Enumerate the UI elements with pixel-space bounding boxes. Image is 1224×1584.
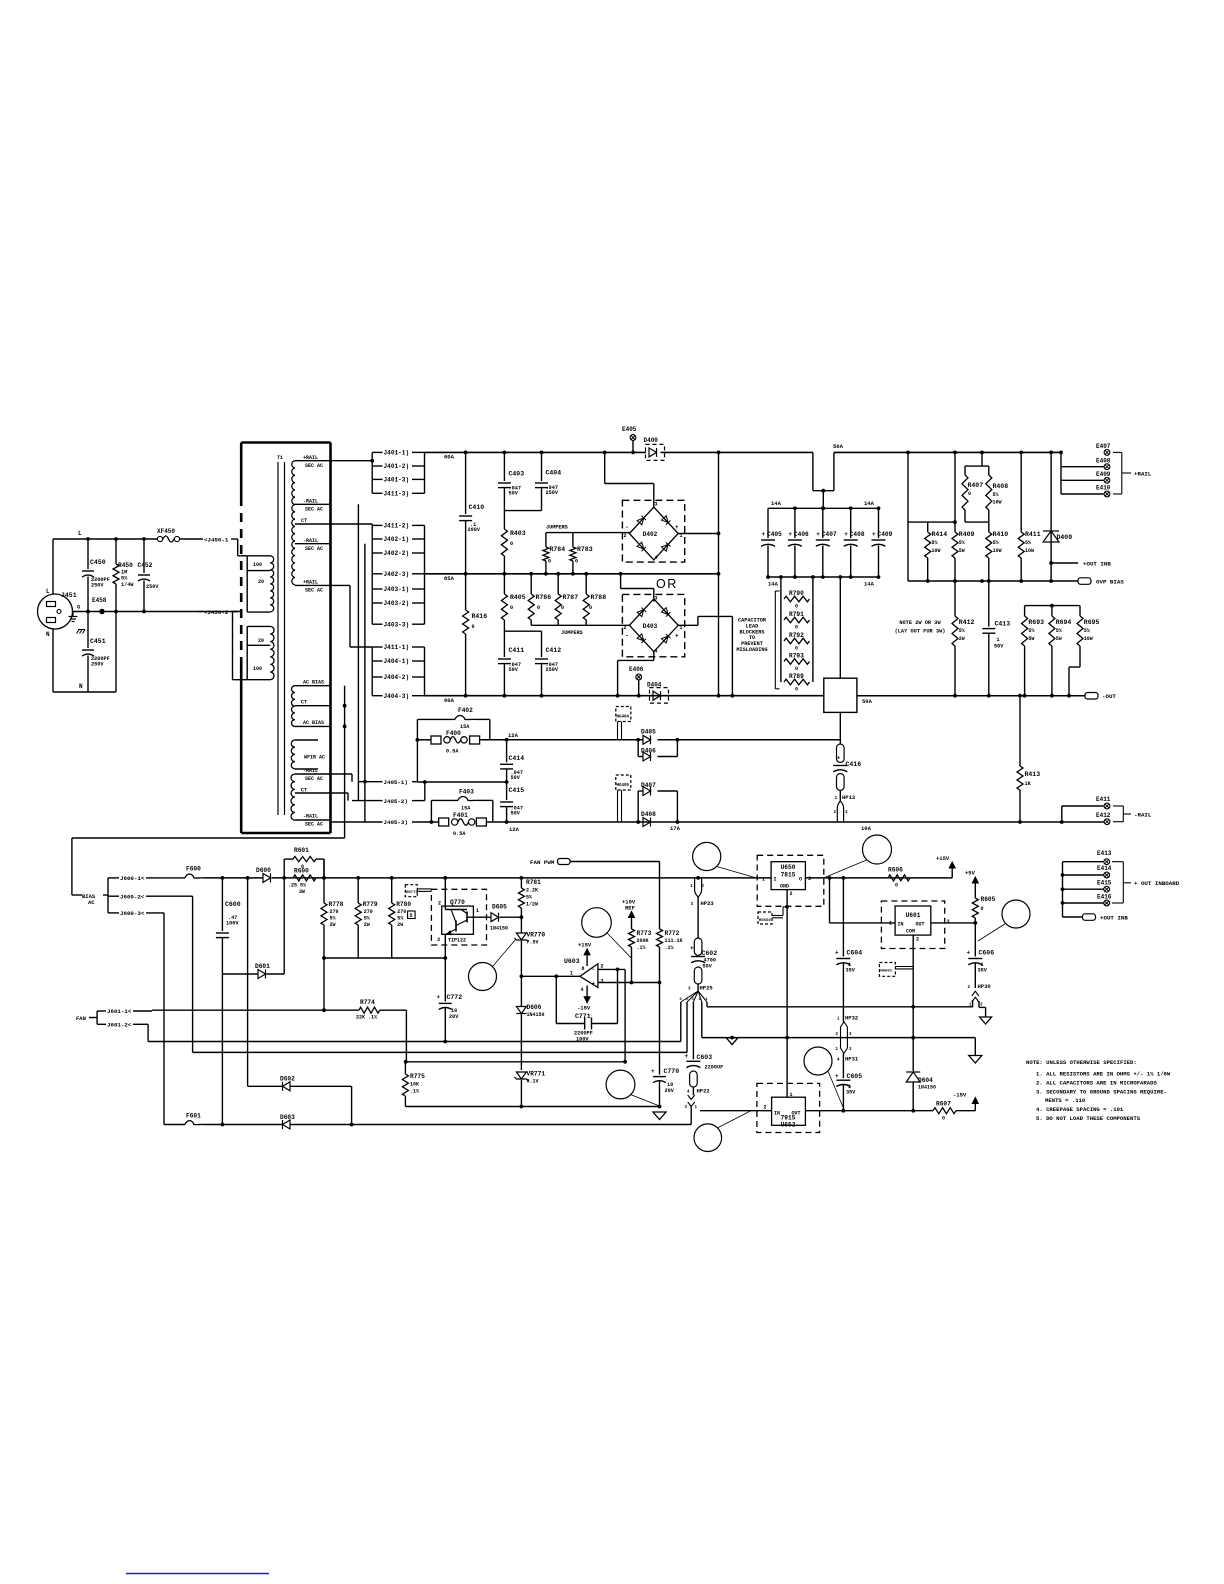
resistor R407 R408 loop: [981, 452, 983, 466]
header HP23 column: [696, 876, 700, 880]
svg-text:IN: IN: [774, 1111, 780, 1117]
resistor R791: [784, 617, 810, 623]
svg-text:HP32: HP32: [845, 1015, 858, 1022]
wire -RAIL vertical to J405-1: [364, 544, 366, 822]
svg-text:E416: E416: [1097, 894, 1112, 901]
svg-text:C771: C771: [575, 1013, 591, 1020]
svg-text:+: +: [872, 531, 876, 538]
wire -15V arrow: [974, 1102, 976, 1111]
svg-text:D605: D605: [492, 904, 507, 911]
svg-text:100: 100: [253, 666, 262, 672]
svg-text:SEC AC: SEC AC: [305, 822, 323, 828]
wire bus A to HP25 pin5: [148, 1041, 681, 1043]
wire bus D ground: [405, 1106, 660, 1108]
wire -15V opamp supply: [586, 986, 588, 999]
svg-text:VR770: VR770: [527, 932, 546, 939]
wire AC BIAS vertical: [344, 686, 346, 838]
svg-text:J405-1): J405-1): [384, 779, 408, 786]
svg-text:5%: 5%: [959, 540, 965, 546]
tag +OUT INB: [1063, 916, 1083, 918]
diode D409: [1050, 452, 1052, 581]
svg-text:+: +: [437, 994, 441, 1001]
svg-text:12A: 12A: [508, 732, 519, 739]
connector J601-1: [97, 1010, 106, 1012]
svg-text:0: 0: [968, 491, 971, 497]
svg-text:R774: R774: [360, 999, 375, 1006]
connector J405-1: [358, 781, 382, 783]
svg-text:HP25: HP25: [700, 985, 714, 992]
svg-text:C606: C606: [979, 950, 995, 957]
svg-text:C416: C416: [846, 761, 862, 768]
svg-text:C412: C412: [546, 647, 562, 654]
balloon callout U652: [694, 1124, 722, 1152]
svg-text:5%: 5%: [1028, 628, 1034, 634]
svg-text:3: 3: [655, 596, 658, 602]
svg-text:20: 20: [258, 638, 264, 644]
svg-text:5: 5: [410, 913, 413, 919]
svg-text:D603: D603: [280, 1114, 295, 1121]
svg-text:-: -: [592, 966, 596, 973]
svg-text:R606: R606: [888, 867, 903, 874]
terminal E410: [1061, 493, 1104, 495]
svg-text:0: 0: [537, 605, 540, 611]
resistor R450: [115, 539, 117, 564]
bracket -RAIL: [1113, 805, 1123, 807]
svg-text:50A: 50A: [862, 698, 873, 705]
svg-text:+: +: [675, 524, 679, 531]
resistor R600: [293, 875, 316, 881]
diode D605: [491, 913, 499, 922]
svg-text:C414: C414: [509, 755, 525, 762]
svg-text:R405: R405: [510, 594, 526, 601]
capacitor C600: [221, 878, 223, 931]
svg-text:R779: R779: [363, 901, 378, 908]
svg-text:JUMPERS: JUMPERS: [546, 525, 568, 531]
svg-text:0: 0: [981, 906, 984, 912]
svg-text:J404-1): J404-1): [384, 658, 410, 665]
svg-text:100V: 100V: [576, 1037, 589, 1043]
diode D406 bypass loop: [637, 740, 639, 757]
svg-text:35V: 35V: [978, 968, 988, 974]
svg-text:10W: 10W: [993, 548, 1002, 554]
svg-text:50V: 50V: [994, 644, 1004, 650]
terminal E408: [1060, 452, 1062, 494]
svg-text:SEC AC: SEC AC: [305, 463, 323, 469]
resistor R783 jumper: [572, 533, 574, 547]
balloon callout U650 left: [693, 842, 721, 870]
svg-text:3: 3: [947, 919, 950, 925]
svg-text:CT: CT: [301, 788, 307, 794]
svg-text:-: -: [625, 633, 629, 640]
wire bias run to lower section: [72, 837, 345, 839]
wire U601 output row: [931, 922, 976, 924]
svg-text:2W: 2W: [330, 922, 336, 928]
svg-text:-OUT: -OUT: [1102, 693, 1116, 700]
resistor R405: [501, 594, 507, 620]
svg-text:L: L: [78, 530, 82, 537]
svg-text:7.5V: 7.5V: [527, 940, 539, 946]
svg-text:J404-2): J404-2): [384, 674, 410, 681]
wire OVP BIAS bus: [908, 580, 1078, 582]
svg-text:J600-3<: J600-3<: [120, 910, 145, 917]
svg-text:5%: 5%: [993, 540, 999, 546]
svg-text:OVP BIAS: OVP BIAS: [1096, 579, 1124, 586]
balloon callout U650 right: [863, 835, 892, 864]
svg-text:VR771: VR771: [527, 1071, 546, 1078]
capacitor C409: [878, 508, 880, 538]
wire 60A bottom bus: [425, 695, 824, 697]
svg-text:C411: C411: [509, 647, 525, 654]
svg-text:14A: 14A: [864, 500, 875, 507]
jumper HP13: [839, 790, 841, 801]
svg-text:-15V: -15V: [577, 1005, 591, 1012]
svg-text:T1: T1: [277, 455, 283, 461]
wire vertical to D602: [247, 878, 249, 1086]
wire J405 center tap row: [417, 781, 506, 783]
svg-text:5%: 5%: [121, 576, 128, 582]
resistor R793: [784, 659, 810, 665]
svg-text:R607: R607: [936, 1101, 951, 1108]
svg-text:F400: F400: [446, 730, 461, 737]
svg-text:+RAIL: +RAIL: [1134, 471, 1152, 478]
svg-text:.25 5%: .25 5%: [288, 883, 306, 889]
svg-text:R605: R605: [981, 896, 996, 903]
wire bus notch to cap bank: [812, 452, 814, 490]
ground symbol HP30: [980, 1017, 992, 1024]
wire HP25 pin1 to bus E: [706, 1002, 708, 1007]
svg-text:HP22: HP22: [697, 1088, 710, 1095]
svg-text:2: 2: [916, 937, 919, 943]
bracket + OUT INBOARD: [1112, 861, 1123, 863]
svg-text:C604: C604: [847, 950, 863, 957]
resistor R790: [784, 596, 810, 602]
svg-text:+RAIL: +RAIL: [303, 580, 318, 586]
bridge rectifier D402: [622, 500, 684, 562]
svg-text:C452: C452: [138, 562, 153, 569]
svg-text:5W: 5W: [1028, 636, 1034, 642]
svg-text:AC BIAS: AC BIAS: [303, 720, 324, 726]
svg-text:CT: CT: [301, 518, 307, 524]
svg-text:R783: R783: [577, 546, 593, 553]
svg-text:9.1V: 9.1V: [527, 1079, 539, 1085]
svg-text:0: 0: [510, 541, 513, 547]
svg-text:0: 0: [548, 559, 551, 565]
svg-text:F601: F601: [186, 1113, 201, 1120]
svg-text:50V: 50V: [509, 491, 519, 497]
svg-text:D604: D604: [918, 1077, 933, 1084]
diode D601 row: [222, 973, 258, 975]
fuse F601 row: [163, 913, 165, 1125]
connector group J402: [372, 524, 382, 526]
svg-text:10K: 10K: [410, 1082, 419, 1088]
capacitor C403: [503, 452, 505, 481]
svg-text:C600: C600: [225, 901, 241, 908]
svg-text:C451: C451: [90, 638, 106, 645]
wire feed J402 group: [331, 523, 373, 525]
svg-text:200V: 200V: [468, 527, 481, 533]
svg-text:270: 270: [397, 909, 406, 915]
svg-text:C405: C405: [767, 531, 782, 538]
svg-text:F402: F402: [458, 707, 473, 714]
capacitor C452: [143, 539, 145, 573]
wire D402 input from jumpers: [628, 532, 630, 535]
svg-text:50V: 50V: [509, 667, 519, 673]
wire R414 top link: [908, 521, 955, 523]
svg-text:2: 2: [624, 625, 627, 631]
svg-text:C403: C403: [509, 471, 525, 478]
capacitor C603 column: [692, 1002, 694, 1059]
fuse F402: [417, 718, 455, 720]
svg-text:E410: E410: [1096, 485, 1111, 492]
svg-text:50V: 50V: [511, 811, 521, 817]
svg-text:FAN PWM: FAN PWM: [530, 859, 555, 866]
svg-text:5%: 5%: [1025, 540, 1031, 546]
svg-text:C413: C413: [995, 621, 1011, 628]
svg-text:J411-2): J411-2): [384, 523, 410, 530]
svg-text:TIP122: TIP122: [448, 938, 466, 944]
capacitor C451: [87, 612, 89, 649]
wire bus E: [707, 1006, 973, 1008]
resistor R694: [1051, 606, 1053, 616]
wire HP25 pin2 ground row: [701, 1002, 703, 1038]
svg-text:R601: R601: [294, 847, 309, 854]
svg-text:D403: D403: [643, 623, 658, 630]
svg-text:C404: C404: [546, 470, 562, 477]
svg-text:J403-2): J403-2): [384, 600, 410, 607]
resistor R792: [784, 638, 810, 644]
svg-text:2.2K: 2.2K: [526, 888, 538, 894]
primary winding group 1: [270, 556, 274, 612]
svg-text:C605: C605: [847, 1073, 863, 1080]
wire U601 COM column: [912, 935, 914, 1071]
svg-text:0: 0: [795, 666, 798, 672]
svg-text:E408: E408: [1096, 458, 1111, 465]
capacitor C404: [541, 452, 543, 481]
capacitor C405: [767, 508, 769, 538]
svg-text:12A: 12A: [509, 826, 520, 833]
connector J405-2: [352, 800, 383, 802]
svg-text:R407: R407: [968, 482, 984, 489]
terminal E411: [1062, 805, 1104, 807]
svg-text:C770: C770: [664, 1068, 680, 1075]
svg-text:+: +: [762, 531, 766, 538]
resistor R413: [1019, 696, 1021, 766]
svg-text:J405-2): J405-2): [384, 798, 408, 805]
svg-text:0: 0: [795, 646, 798, 652]
resistor R403: [503, 511, 505, 529]
svg-text:60A: 60A: [444, 454, 455, 461]
svg-text:+: +: [816, 531, 820, 538]
resistor R775: [404, 1062, 406, 1074]
svg-text:2: 2: [764, 1105, 767, 1111]
header HG650: [758, 912, 772, 924]
wire +15V arrow: [951, 866, 953, 878]
svg-text:R784: R784: [550, 546, 566, 553]
connector J600-1: [108, 877, 119, 879]
svg-text:14A: 14A: [771, 500, 782, 507]
svg-text:Q770: Q770: [450, 899, 465, 906]
wire J601-1 fan sense row: [152, 1009, 359, 1011]
svg-text:2: 2: [790, 891, 793, 897]
svg-text:5%: 5%: [1084, 628, 1090, 634]
svg-text:0: 0: [575, 559, 578, 565]
svg-text:+: +: [835, 1073, 839, 1080]
wire 12A bus lower: [431, 821, 438, 823]
resistor R601 loop: [283, 859, 285, 878]
svg-text:1/4W: 1/4W: [121, 582, 134, 588]
svg-text:-15V: -15V: [953, 1092, 967, 1099]
svg-text:C602: C602: [702, 950, 718, 957]
svg-text:1: 1: [476, 908, 479, 914]
connector group J404: [372, 646, 382, 648]
bracket +RAIL: [1113, 451, 1122, 453]
svg-text:D601: D601: [255, 963, 270, 970]
svg-text:3: 3: [655, 502, 658, 508]
svg-text:-RAIL: -RAIL: [303, 768, 318, 774]
svg-text:E412: E412: [1096, 812, 1111, 819]
note boxed 5: [408, 911, 416, 919]
svg-text:270: 270: [364, 909, 373, 915]
wire stack4 taps to J405: [331, 773, 353, 775]
svg-text:HG404: HG404: [617, 716, 630, 720]
wire +15V opamp supply: [586, 953, 588, 966]
svg-text:3: 3: [601, 979, 604, 985]
svg-text:D409: D409: [1057, 534, 1073, 541]
svg-text:R409: R409: [959, 531, 975, 538]
svg-text:8: 8: [582, 966, 585, 972]
svg-text:R788: R788: [591, 594, 607, 601]
svg-text:1N4150: 1N4150: [527, 1012, 545, 1018]
svg-text:E409: E409: [1096, 471, 1111, 478]
svg-text:NOTE: UNLESS OTHERWISE SPECIFI: NOTE: UNLESS OTHERWISE SPECIFIED:: [1026, 1059, 1137, 1066]
capacitor C772: [444, 958, 446, 1001]
svg-text:OR: OR: [656, 577, 678, 591]
svg-text:1N4150: 1N4150: [490, 926, 508, 932]
regulator U650 7815: [757, 855, 824, 906]
svg-text:111.1K: 111.1K: [665, 938, 683, 944]
svg-text:R412: R412: [959, 619, 975, 626]
svg-text:E458: E458: [92, 597, 107, 604]
svg-text:F401: F401: [453, 812, 468, 819]
svg-text:4. CREEPAGE SPACING = .101: 4. CREEPAGE SPACING = .101: [1036, 1106, 1124, 1113]
svg-text:100V: 100V: [226, 921, 239, 927]
svg-text:F600: F600: [186, 866, 201, 873]
svg-text:250V: 250V: [146, 584, 159, 590]
block 50A shunt box: [824, 678, 857, 712]
svg-text:2. ALL CAPACITORS ARE IN MICRO: 2. ALL CAPACITORS ARE IN MICROFARADS: [1036, 1080, 1157, 1087]
svg-text:N: N: [79, 683, 83, 690]
wire feed J404 group: [331, 584, 351, 586]
svg-text:R791: R791: [789, 611, 804, 618]
svg-text:0.5A: 0.5A: [453, 831, 466, 837]
svg-text:E411: E411: [1096, 796, 1111, 803]
resistor R409: [954, 452, 956, 532]
svg-text:OUT: OUT: [916, 922, 925, 928]
svg-text:R416: R416: [472, 613, 488, 620]
terminal E409: [1061, 479, 1104, 481]
svg-text:0: 0: [795, 604, 798, 610]
svg-text:5W: 5W: [1056, 636, 1062, 642]
capacitor C411: [503, 631, 505, 657]
svg-text:J601-2<: J601-2<: [107, 1022, 132, 1029]
transistor Q770 internals: [444, 878, 446, 906]
svg-text:4: 4: [581, 987, 584, 993]
svg-text:0: 0: [472, 624, 475, 630]
svg-text:U650: U650: [781, 864, 796, 871]
svg-text:C410: C410: [469, 504, 485, 511]
svg-text:E406: E406: [629, 666, 644, 673]
svg-text:2: 2: [601, 964, 604, 970]
svg-text:D407: D407: [641, 782, 656, 789]
resistor R693: [1024, 606, 1026, 616]
tag -OUT: [1085, 693, 1098, 700]
svg-text:J401-1): J401-1): [384, 450, 410, 457]
svg-text:J601-1<: J601-1<: [107, 1008, 132, 1015]
svg-text:J401-2): J401-2): [384, 463, 410, 470]
svg-text:HP30: HP30: [978, 983, 991, 990]
header HG770: [405, 885, 417, 897]
svg-text:SEC AC: SEC AC: [305, 507, 323, 513]
wire cap bank top rail: [768, 507, 879, 509]
svg-text:50V: 50V: [511, 775, 521, 781]
resistors R693 R694 R695 rail: [1025, 605, 1080, 607]
svg-text:D600: D600: [256, 867, 271, 874]
svg-text:R789: R789: [789, 673, 804, 680]
svg-text:50A: 50A: [833, 443, 844, 450]
wire -RAIL vertical to J405-2: [357, 504, 359, 800]
svg-text:C407: C407: [822, 531, 837, 538]
svg-text:AC BIAS: AC BIAS: [303, 680, 324, 686]
svg-text:C409: C409: [878, 531, 893, 538]
svg-text:R411: R411: [1025, 531, 1041, 538]
svg-text:10W: 10W: [1025, 548, 1034, 554]
wire J601-2 to bus A: [147, 1024, 149, 1041]
svg-text:R408: R408: [993, 483, 1009, 490]
svg-text:3W: 3W: [299, 889, 305, 895]
svg-text:HG601: HG601: [880, 970, 893, 974]
resistor R695: [1079, 606, 1081, 616]
diode D604: [906, 1072, 920, 1082]
svg-text:+: +: [685, 1053, 689, 1060]
balloon callout opamp: [582, 908, 612, 938]
svg-text:14A: 14A: [768, 581, 779, 588]
svg-text:SEC AC: SEC AC: [305, 588, 323, 594]
resistor R774: [359, 1007, 380, 1013]
resistor R787 jumper: [557, 574, 559, 594]
svg-text:I: I: [774, 877, 777, 883]
svg-text:R792: R792: [789, 632, 804, 639]
diode D603: [283, 1120, 291, 1129]
resistor R411: [1020, 452, 1022, 532]
svg-text:+: +: [835, 950, 839, 957]
svg-text:+: +: [592, 981, 596, 988]
svg-text:10W: 10W: [993, 500, 1002, 506]
svg-text:0: 0: [510, 605, 513, 611]
svg-text:IN: IN: [898, 922, 904, 928]
wire J600-2 bus B: [192, 896, 194, 1052]
wire bus C: [405, 1061, 625, 1063]
wire jumper rail lower: [531, 624, 629, 626]
capacitor C606 column: [974, 923, 976, 957]
svg-text:E414: E414: [1097, 865, 1112, 872]
resistor R607: [933, 1108, 956, 1114]
svg-text:R772: R772: [665, 930, 680, 937]
svg-text:HP13: HP13: [842, 794, 856, 801]
svg-text:3: 3: [808, 876, 811, 882]
bridge rectifier D403: [622, 594, 684, 656]
svg-text:J600-2<: J600-2<: [120, 893, 145, 900]
svg-text:2W: 2W: [364, 922, 370, 928]
